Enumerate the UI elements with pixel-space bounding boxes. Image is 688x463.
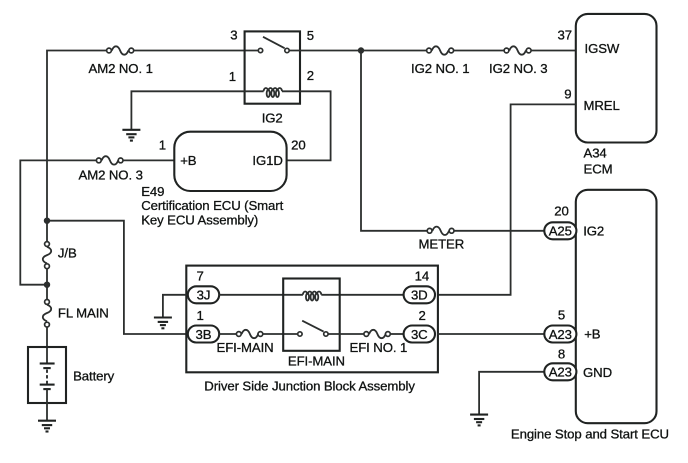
svg-text:IG1D: IG1D [252,153,282,168]
junction block outer box [186,266,438,373]
wire switch to EFI NO.1 fuse [329,333,364,335]
wire METER branch to fuse [361,51,427,231]
wire fuse AM2 NO.1 to IG2 relay pin 3 [134,50,258,52]
connector oval 3C [404,326,435,343]
wire 3J to relay coil [219,294,303,296]
wire fuse to relay switch [263,333,297,335]
svg-text:EFI NO. 1: EFI NO. 1 [350,340,408,355]
ground below IG2 coil [122,130,140,141]
wire fuse to ECM IGSW [532,50,576,52]
svg-text:3C: 3C [411,327,428,342]
svg-text:A23: A23 [549,327,572,342]
relay IG2 switch blade [263,37,285,48]
svg-text:MREL: MREL [584,98,620,113]
svg-text:IG2 NO. 3: IG2 NO. 3 [489,61,547,76]
svg-text:Engine Stop and Start ECU: Engine Stop and Start ECU [511,426,669,441]
wire METER fuse to A25 [454,230,546,232]
ground below battery [38,421,56,432]
svg-text:Battery: Battery [73,369,115,384]
ECU E49 box [174,132,286,191]
Engine Stop and Start ECU box [576,190,657,423]
svg-text:3: 3 [230,28,237,43]
fuse EFI NO. 1 [364,330,390,338]
svg-text:5: 5 [307,28,314,43]
svg-text:AM2 NO. 1: AM2 NO. 1 [89,61,153,76]
ECM A34 box [576,14,657,143]
connector oval A23 GND [544,363,576,380]
wire fuse to 3C [391,333,404,335]
wire FL MAIN to battery [46,327,48,363]
wire IG2 pin 1 to ground [131,91,263,130]
svg-text:A34: A34 [584,146,607,161]
svg-text:A25: A25 [549,224,572,239]
relay EFI-MAIN coil [303,292,321,301]
battery cell plates [40,364,55,390]
svg-text:J/B: J/B [58,246,77,261]
relay IG2 switch contacts [258,48,262,52]
fuse EFI-MAIN [236,330,262,338]
svg-text:14: 14 [415,268,429,283]
svg-text:3B: 3B [196,327,212,342]
svg-text:5: 5 [558,308,565,323]
svg-text:1: 1 [159,137,166,152]
svg-text:2: 2 [307,68,314,83]
svg-text:AM2 NO. 3: AM2 NO. 3 [79,167,143,182]
junction dot to 3B branch [44,218,50,224]
wire fuse AM2 NO.3 to E49 +B [123,159,174,161]
relay IG2 coil [264,88,282,97]
svg-text:8: 8 [558,347,565,362]
svg-text:3D: 3D [411,288,428,303]
connector oval 3J [188,286,219,303]
svg-text:IGSW: IGSW [585,41,620,56]
wire AM2 NO.3 branch [20,160,96,284]
svg-text:IG2: IG2 [262,111,283,126]
connector oval 3B [188,326,219,343]
relay EFI-MAIN switch contacts [298,332,302,336]
wire A23 GND to ground [479,372,546,415]
wire MREL to 3D [437,104,576,294]
connector oval A25 [544,222,576,239]
svg-text:EFI-MAIN: EFI-MAIN [288,353,345,368]
fuse AM2 NO. 3 [96,156,123,164]
relay IG2 box [245,31,300,103]
svg-text:ECM: ECM [584,161,613,176]
fuse METER [427,227,454,235]
wire battery to ground [46,389,48,421]
svg-text:20: 20 [554,203,568,218]
fuse AM2 NO. 1 [107,46,134,54]
relay EFI-MAIN switch blade [302,321,323,332]
svg-text:3J: 3J [197,288,211,303]
connector oval A23 +B [544,326,576,343]
wire between fuses [454,50,504,52]
svg-text:Driver Side Junction Block Ass: Driver Side Junction Block Assembly [204,379,415,394]
svg-text:37: 37 [558,28,572,43]
fuse IG2 NO. 3 [504,46,531,54]
wire AM2 NO.1 feed: battery bus to fuse [47,51,106,242]
svg-text:+B: +B [180,153,197,168]
ground below 3J [154,318,172,329]
wire 3J to ground (left) [163,295,189,318]
wire IG2 pin 2 to E49 IG1D [282,91,331,160]
battery box [28,347,66,403]
ground below A23 GND [470,415,488,426]
svg-text:GND: GND [583,365,612,380]
svg-text:1: 1 [197,308,204,323]
svg-text:Key ECU Assembly): Key ECU Assembly) [141,213,258,228]
svg-text:EFI-MAIN: EFI-MAIN [217,340,274,355]
junction dot METER branch [358,47,364,53]
wire 3B to EFI-MAIN fuse [219,333,236,335]
wire coil to 3D [321,294,403,296]
svg-text:FL MAIN: FL MAIN [58,306,109,321]
svg-text:IG2: IG2 [583,223,604,238]
fusible link FL MAIN [43,300,51,328]
svg-text:Certification ECU (Smart: Certification ECU (Smart [141,198,283,213]
connector oval 3D [404,286,435,303]
svg-text:METER: METER [419,237,465,252]
svg-text:1: 1 [229,69,236,84]
svg-text:7: 7 [197,268,204,283]
svg-text:2: 2 [419,308,426,323]
svg-text:+B: +B [584,326,601,341]
relay EFI-MAIN box [283,279,340,351]
wire branch to 3B [47,221,190,334]
wire between J/B and FL MAIN [46,269,48,299]
svg-text:9: 9 [564,87,571,102]
fuse IG2 NO. 1 [427,46,454,54]
svg-text:IG2 NO. 1: IG2 NO. 1 [411,61,469,76]
junction dot AM2 NO.3 branch [44,282,50,288]
svg-text:20: 20 [291,137,305,152]
wire IG2 pin5 to IG2 NO.1 fuse [290,50,427,52]
svg-text:E49: E49 [141,184,164,199]
fusible link J/B [43,242,51,269]
svg-text:A23: A23 [549,365,572,380]
wire 3C to A23 +B [437,333,546,335]
